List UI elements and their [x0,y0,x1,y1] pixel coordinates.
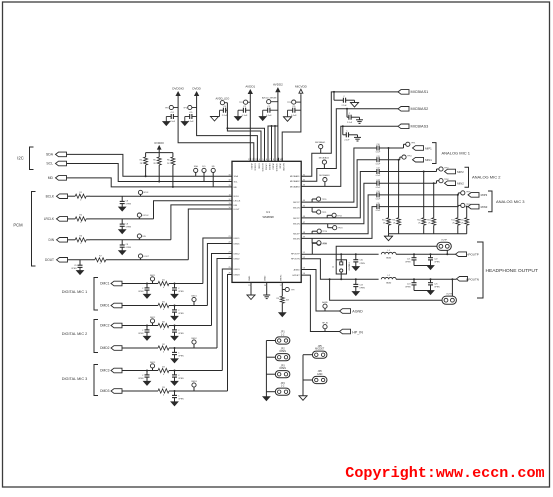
wire SCL to chip [67,164,233,182]
resistor R3 series on DIN [68,239,75,241]
test point MICBIAS2_TP [322,160,326,164]
svg-text:AGND: AGND [322,301,328,304]
svg-text:AGND: AGND [294,268,301,271]
svg-text:DMD2: DMD2 [100,346,110,350]
svg-text:OPEN: OPEN [126,247,132,249]
ground for left cap DMC1 [144,294,151,298]
capacitor shunt right on DMC3 [174,371,176,375]
resistor R12 bias on MIC2P [423,172,425,218]
ground for left cap DMC2 [144,336,151,340]
test point MIN3_TP [457,205,459,206]
resistor R5 pull-up [158,153,160,157]
svg-text:2K: 2K [428,223,431,225]
svg-text:0.1uF: 0.1uF [376,175,381,177]
svg-text:HPOUTP: HPOUTP [466,253,479,257]
svg-text:HEADPHONE OUTPUT: HEADPHONE OUTPUT [486,268,538,274]
svg-text:DOUT: DOUT [144,256,150,258]
svg-text:MD: MD [212,166,216,168]
pin 16 GND2 (bottom) [266,282,268,285]
svg-text:TPP3: TPP3 [466,191,471,193]
svg-text:DVDDIO: DVDDIO [172,86,184,90]
bracket DIGITAL MIC 3 [94,365,98,396]
svg-text:0.1uF: 0.1uF [376,152,381,154]
capacitor coupling C12 on MIC2P [376,169,378,174]
capacitor shunt left on DMC3 [146,371,148,375]
svg-text:OPEN: OPEN [178,313,184,315]
wire DMC2 row [122,325,158,327]
svg-text:OPEN: OPEN [71,268,77,270]
test point MIP2_TP [436,169,438,172]
svg-text:7: 7 [269,159,270,161]
svg-text:CO: CO [171,112,175,114]
svg-text:2.2uF: 2.2uF [222,115,228,117]
svg-text:GND1: GND1 [249,276,251,281]
svg-text:TP22: TP22 [337,215,342,217]
wire HP_DET from chip [301,275,339,331]
wire DMD3 riser to chip [228,275,233,392]
wire DMD3 row [122,390,158,392]
svg-text:DVDDIO: DVDDIO [254,164,256,172]
svg-text:HPOUTN: HPOUTN [291,259,300,261]
svg-text:DMC3: DMC3 [234,269,241,271]
svg-text:15: 15 [248,285,250,287]
test point DMC2_TP [150,319,154,323]
resistor series on DMD2 [158,346,169,350]
svg-text:2K: 2K [140,163,143,165]
svg-text:1-2: 1-2 [281,334,285,337]
svg-text:MICVDD: MICVDD [295,85,308,89]
svg-text:DMC2: DMC2 [100,324,110,328]
test point LRCLK_TP [137,213,141,217]
resistor R2 series on LRCLK [68,218,75,220]
svg-text:9: 9 [276,159,277,161]
svg-text:HP_IN: HP_IN [322,323,328,325]
wire MICVDD rail to chip pin 10 [282,94,301,161]
wire AVDD1 rail to chip pin 1 [249,94,251,161]
svg-text:DMD2: DMD2 [234,258,241,260]
ground for bias bus [388,234,390,236]
test point MICBIAS3_TP [323,178,327,182]
svg-text:0: 0 [163,395,165,397]
headset jack switch J1 [336,260,346,274]
svg-text:C8: C8 [126,201,128,203]
resistor R1 series on BCLK [68,195,75,197]
test point DVDDIO_TP [169,105,173,109]
svg-text:U1: U1 [266,210,270,214]
capacitor C21 shunt after L1 [413,253,415,255]
ground for LRCLK cap [119,230,126,234]
svg-text:MIC1N: MIC1N [293,207,300,209]
pin 15 GND1 (bottom) [250,282,252,285]
svg-text:OPEN: OPEN [359,288,365,290]
ground for C24 C25 [414,290,431,292]
capacitor on MICBIAS2 [346,108,348,110]
svg-text:MICBIAS1: MICBIAS1 [290,175,301,178]
svg-text:C: C [178,288,180,290]
ground for DIN cap [119,251,126,255]
svg-text:OPEN: OPEN [178,333,184,335]
svg-text:C: C [346,130,348,132]
resistor R9 on VREFC pin with test point [281,285,283,296]
resistor R11 bias on MIC1N [398,160,400,218]
svg-text:2K: 2K [461,223,464,225]
svg-text:TP20: TP20 [322,199,327,201]
svg-text:0: 0 [80,200,82,202]
svg-text:0: 0 [100,263,102,265]
pin 17 VREFC (bottom) [281,282,283,285]
svg-text:HP_IN: HP_IN [352,330,363,334]
resistor R15 bias on MIC3N [466,207,468,218]
capacitor shunt on BCLK [90,195,232,197]
svg-text:TP23: TP23 [338,228,343,230]
test point near chip on MIC3N [311,238,313,243]
capacitor shunt on DOUT [68,259,95,261]
svg-text:SPKVDD: SPKVDD [275,164,277,172]
capacitor coupling C10 on MIC1P [376,146,378,151]
svg-text:DMD1: DMD1 [234,243,241,245]
ground for AVDD1 cap [235,117,242,121]
wire MIC1N from chip pin through coupling cap [301,160,377,208]
wire MIC2P from chip pin through coupling cap [301,172,377,218]
capacitor C22 shunt after L1 [430,253,432,255]
svg-text:OUTN: OUTN [446,293,453,295]
wire MIC3P from chip pin through coupling cap [301,195,377,234]
capacitor coupling C15 on MIC3N [376,204,378,209]
svg-text:DIGITAL MIC 1: DIGITAL MIC 1 [62,290,88,294]
svg-text:DVDD: DVDD [257,164,259,170]
wire MICBIAS3 from chip to header [301,126,398,186]
svg-text:C: C [178,330,180,332]
svg-text:DIN: DIN [142,236,146,238]
connector AGND [340,309,351,314]
svg-text:C: C [178,395,180,397]
pin 3 DVDD (top) [256,158,258,162]
svg-text:0.1uF: 0.1uF [188,121,194,123]
svg-text:1-2: 1-2 [281,385,285,388]
svg-text:8: 8 [273,159,274,161]
wire DMD1 riser to chip [207,244,232,306]
svg-text:C25: C25 [434,284,437,286]
svg-text:C24: C24 [407,284,410,286]
ground for BCLK cap [119,207,126,211]
svg-text:MIN3: MIN3 [481,205,488,209]
inductor L1 [381,252,396,254]
ground for MICBIAS2 cap [359,117,361,120]
svg-text:J1: J1 [332,267,335,269]
svg-text:10: 10 [280,159,282,161]
svg-text:GND: GND [317,373,323,376]
wire MIC2N row after cap [379,182,436,184]
ground for left cap DMC3 [144,381,151,385]
svg-text:SCL: SCL [46,162,53,166]
capacitor C25 shunt after L2 [430,278,432,280]
wire DMD2 row [122,347,158,349]
pin 8 SPKVDD (top) [274,158,276,162]
svg-text:R1: R1 [162,279,165,281]
test point BCLK_TP [138,190,142,194]
svg-text:DIGITAL MIC 3: DIGITAL MIC 3 [62,377,88,381]
svg-text:2K: 2K [383,223,386,225]
svg-text:DMC1: DMC1 [100,282,110,286]
svg-text:C20: C20 [359,260,362,262]
svg-text:MICBIAS2: MICBIAS2 [319,157,330,160]
ground for jumper block 1 [263,397,270,401]
svg-text:C9: C9 [74,265,76,267]
svg-text:R9: R9 [276,298,278,300]
jack OUTN [442,296,456,304]
capacitor C_AVDD1 [246,109,251,111]
svg-text:MICDET: MICDET [315,348,325,351]
svg-text:OPEN: OPEN [359,263,365,265]
svg-text:MICBIAS2: MICBIAS2 [290,180,301,183]
svg-text:C: C [178,375,180,377]
svg-text:TP2: TP2 [183,107,188,109]
svg-text:AVDD2_SENSE: AVDD2_SENSE [262,97,277,100]
resistor series on DMC2 [158,323,169,327]
test point AGND_TP [323,304,327,308]
pin 7 AVDD2 (top) [271,158,273,162]
jumper JP6 [303,379,313,381]
svg-text:R10: R10 [382,219,385,221]
wire LRCLK riser to chip [154,201,233,219]
test point SDA_TP [194,168,198,172]
svg-text:C12: C12 [376,168,379,170]
svg-text:C: C [349,113,351,115]
svg-text:TP30: TP30 [323,243,328,245]
jumper JP2 [266,356,275,358]
svg-text:DMD3: DMD3 [234,274,241,276]
svg-text:C: C [178,352,180,354]
test point near chip on MIC3P [311,231,313,234]
test point SCL_TP [202,168,206,172]
svg-text:HPOUTN: HPOUTN [466,277,479,281]
capacitor shunt right on DMD2 [174,348,176,352]
svg-text:OPEN: OPEN [434,287,440,289]
resistor R14 bias on MIC3P [457,195,459,218]
connector MICBIAS2 header [398,107,409,112]
svg-text:MIP2: MIP2 [457,170,464,174]
test point near chip on MIC1P [311,199,313,202]
resistor series on DMC1 [158,281,169,285]
inductor L2 [381,277,396,279]
svg-text:BEAD: BEAD [386,257,392,260]
capacitor shunt right on DMD1 [174,306,176,310]
bracket I2C [30,147,34,170]
svg-text:5: 5 [262,159,263,161]
svg-text:DMD2: DMD2 [191,338,196,340]
svg-text:R2: R2 [162,321,165,323]
bracket DIGITAL MIC 1 [94,278,98,311]
svg-text:R6: R6 [167,160,170,162]
ground for right cap DMC1 [171,294,178,298]
wire MIC3P row after cap [379,194,458,196]
svg-text:R7: R7 [99,255,102,257]
capacitor C20 shunt before L1 [355,253,357,255]
svg-text:MD: MD [234,187,238,189]
svg-text:CD: CD [292,106,296,108]
svg-text:DBVDD: DBVDD [268,164,270,171]
svg-text:C2: C2 [267,106,271,108]
test point HPOUT_TP [311,243,313,254]
ground for C3 [210,116,219,118]
connector MICBIAS1 header [398,90,409,95]
svg-text:C1: C1 [243,106,247,108]
capacitor C_AVDD2 [270,109,278,111]
wire DVDD rail down and to chip pin 3 [197,96,258,161]
svg-text:DMC1: DMC1 [150,275,155,277]
test point DMD3_TP [192,383,196,387]
ground for right cap DMD2 [171,359,178,363]
pin 6 DBVDD (top) [267,158,269,162]
test point HP_DET_TP [323,325,327,329]
wire AVDD2 rail to chip pins [277,92,279,161]
capacitor on MICBIAS1 [333,91,335,93]
capacitor C24 shunt after L2 [413,278,415,280]
svg-text:51: 51 [303,252,305,254]
svg-text:C: C [142,375,144,377]
wire DMD1 row [122,305,158,307]
svg-text:BCLK: BCLK [46,194,55,198]
svg-text:MD: MD [48,176,54,180]
pin 2 DVDDIO (top) [253,158,255,162]
test point MIN2_TP [436,181,438,184]
svg-text:DMC2: DMC2 [234,253,241,255]
svg-text:R15: R15 [460,219,463,221]
svg-text:2.2uF: 2.2uF [347,122,353,124]
wire MICBIAS1 from chip to header [301,92,398,176]
svg-text:TP4: TP4 [239,102,244,104]
ground for MICVDD cap [283,116,292,118]
svg-text:R2: R2 [162,344,165,346]
wire MIC2N from chip pin through coupling cap [301,183,377,224]
svg-text:MIC1P: MIC1P [293,202,300,204]
svg-text:OPEN: OPEN [178,291,184,293]
svg-text:OPEN: OPEN [138,378,144,380]
capacitor shunt on DIN [90,239,171,241]
svg-text:10K: 10K [286,300,290,302]
svg-text:2K: 2K [393,223,396,225]
svg-text:DMC3: DMC3 [100,369,110,373]
jack OUTP [437,242,451,250]
test point DOUT_TP [138,254,142,258]
test point near chip on MIC2N [327,224,329,228]
resistor R13 bias on MIC2N [433,183,435,218]
svg-text:C: C [142,288,144,290]
wire jumper block 2 common [302,355,304,396]
bracket DIGITAL MIC 2 [94,320,98,353]
wire OUTP jack return [336,246,437,259]
svg-text:C21: C21 [407,259,410,261]
svg-text:OPEN: OPEN [138,333,144,335]
svg-text:3: 3 [255,159,256,161]
svg-text:DVDD: DVDD [192,86,201,90]
svg-text:MIN2: MIN2 [457,182,464,186]
test point near chip on MIC1N [311,207,313,212]
svg-text:SDA: SDA [46,153,54,157]
svg-text:AVDD1: AVDD1 [245,84,255,88]
test point AVDD_LDO_TP [220,101,224,105]
svg-text:MIC3N: MIC3N [293,238,300,240]
connector MIP1 [413,146,424,151]
ground chip GND1 pin [250,285,252,295]
test point MD_TP [211,168,215,172]
svg-text:TP21: TP21 [322,212,327,214]
ground chip GND2 pin [266,285,268,295]
op-amp U1 main codec IC [232,161,301,282]
svg-text:0.1uF: 0.1uF [242,115,248,117]
test point MIP3_TP [457,193,459,195]
wire DMC3 row [122,370,158,372]
test point DMC1_TP [150,277,154,281]
svg-text:DMD3: DMD3 [100,389,110,393]
svg-text:C10: C10 [376,144,379,146]
svg-text:TPP1: TPP1 [411,143,416,145]
ground for MICBIAS3 cap [357,135,359,138]
pin 4 LDOVDD (top) [260,158,262,162]
svg-text:BCLK: BCLK [144,192,150,194]
test point MICBIAS1_TP [319,145,323,149]
svg-text:OPEN: OPEN [178,355,184,357]
wire SDA to chip [67,154,233,176]
svg-text:0: 0 [80,222,82,224]
svg-text:CPVDD: CPVDD [264,164,266,171]
svg-text:16: 16 [264,285,266,287]
connector MIN2 [445,181,456,186]
svg-text:C: C [142,330,144,332]
wire AGND from chip [301,270,339,312]
wire J1 pins [340,254,342,262]
svg-text:R12: R12 [417,219,420,221]
svg-text:OPEN: OPEN [126,226,132,228]
svg-text:PCM: PCM [13,222,23,227]
ground for right cap DMC2 [171,336,178,340]
svg-text:2K: 2K [418,223,421,225]
svg-text:C22: C22 [434,259,437,261]
ground for DVDDIO cap [163,122,170,126]
test point MICVDD_TP [292,100,296,104]
svg-text:2K: 2K [452,223,455,225]
capacitor shunt right on DMC2 [174,326,176,330]
capacitor coupling C14 on MIC3P [376,192,378,197]
svg-text:OPEN: OPEN [138,291,144,293]
pin 1 AVDD1 (top) [249,158,251,162]
svg-text:0.1uF: 0.1uF [170,121,176,123]
svg-text:MIP1: MIP1 [425,146,432,150]
wire DIN riser to chip [171,205,232,240]
svg-text:0: 0 [163,287,165,289]
wire MIC1N row after cap [379,159,400,161]
ground for C20 [352,267,359,271]
capacitor C_MICVDD [295,109,301,111]
test point DIN_TP [137,234,141,238]
svg-text:C: C [343,96,345,98]
svg-text:C11: C11 [376,156,379,158]
svg-text:VREFC: VREFC [280,274,282,281]
svg-text:OPEN: OPEN [126,204,132,206]
connector MIP2 [445,169,456,174]
connector HP_DET [340,329,351,334]
svg-text:6: 6 [266,159,267,161]
svg-text:Copyright:www.eccn.com: Copyright:www.eccn.com [345,464,544,482]
svg-text:0.1uF: 0.1uF [376,187,381,189]
svg-text:0: 0 [80,243,82,245]
svg-text:17: 17 [280,285,282,287]
bracket ANALOG MIC 3 [488,191,492,212]
svg-text:DMC2: DMC2 [150,317,155,319]
svg-text:R1: R1 [162,301,165,303]
svg-text:CD: CD [189,112,193,114]
resistor series on DMC3 [158,368,169,372]
